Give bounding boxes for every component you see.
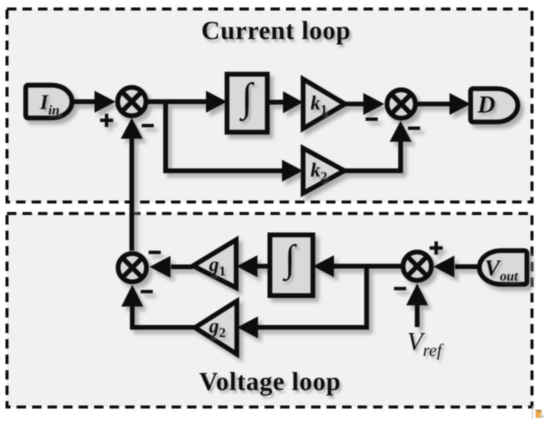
arrowhead into S3 right (433, 256, 454, 278)
gain g2 (195, 301, 237, 354)
wire I_in to S1 (70, 99, 98, 104)
arrowhead into k2 (282, 160, 303, 182)
svg-text:Voltage loop: Voltage loop (199, 367, 341, 396)
arrowhead into k1 (283, 91, 303, 113)
wire V_ref to S3 bottom (415, 304, 420, 327)
summing junction S2 (387, 90, 415, 118)
terminal D (471, 89, 518, 122)
gain k2 (303, 148, 344, 193)
terminal I_in (26, 85, 72, 118)
arrowhead into S4 bottom (121, 285, 143, 307)
arrowhead into g1 right (237, 255, 258, 277)
integrator U2 (270, 235, 313, 296)
wire S1 to integrator U1 (146, 99, 212, 104)
wire S2 to D (417, 102, 452, 107)
voltage loop dashed frame (7, 214, 532, 408)
summing junction S3 (403, 252, 431, 280)
wire k1 to S2 (345, 102, 366, 107)
svg-text:∫: ∫ (239, 75, 255, 122)
arrowhead into g2 right (237, 316, 258, 338)
plus sign at S3 (430, 241, 443, 254)
arrowhead into S2 left (363, 93, 384, 115)
minus sign at S2 left (366, 117, 378, 120)
minus sign at S4 bottom (141, 290, 153, 293)
minus sign at S4 top (149, 251, 161, 254)
arrowhead into S2 bottom (390, 121, 412, 142)
minus sign at S2 right (408, 126, 420, 129)
gain k1 (303, 79, 345, 129)
minus sign at S3 bottom (394, 287, 406, 290)
current loop dashed frame (7, 9, 532, 202)
svg-text:D: D (477, 92, 496, 119)
wire S3 to integrator U2 (332, 264, 403, 269)
wire branch down to g2 (256, 266, 367, 327)
arrowhead into U1 (206, 91, 227, 113)
summing junction S4 (118, 254, 146, 282)
integrator U1 (227, 74, 267, 132)
terminal V_out (479, 251, 527, 285)
arrowhead into D (450, 93, 471, 115)
minus sign at S1 right (142, 124, 154, 127)
wire g1 to S4 (171, 264, 193, 269)
wire g2 to S4 bottom (132, 305, 195, 327)
wire S4 up to S1 (129, 136, 134, 251)
svg-text:Current loop: Current loop (201, 16, 351, 45)
wire U1 to k1 (267, 100, 286, 105)
summing junction S1 (118, 87, 146, 115)
arrowhead into S3 bottom (406, 283, 428, 305)
arrowhead into S4 right (149, 256, 170, 278)
arrowhead into U2 right (313, 255, 334, 277)
wire U2 to g1 (256, 264, 270, 269)
plus sign at S1 (100, 114, 113, 127)
wire branch down to k2 (166, 102, 289, 171)
watermark icon bottom right (532, 406, 544, 420)
gain g1 (193, 240, 236, 288)
wire V_out to S3 (455, 264, 480, 269)
wire k2 to S2 bottom (344, 140, 400, 171)
arrowhead into S1 (95, 91, 116, 113)
arrowhead into S1 bottom (121, 118, 143, 139)
